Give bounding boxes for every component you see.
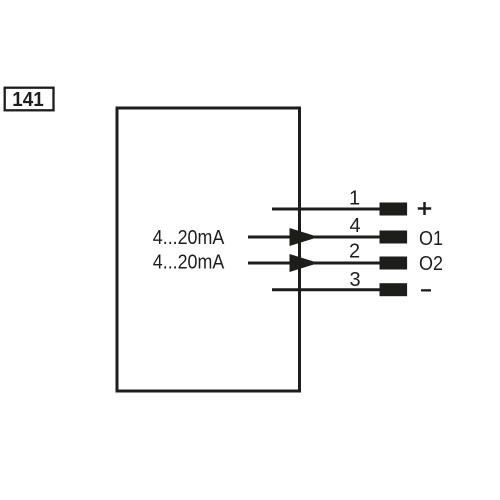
svg-text:O2: O2 — [419, 253, 443, 275]
terminal pin 1 — [380, 203, 408, 216]
label + — [418, 202, 431, 215]
svg-text:O1: O1 — [419, 228, 443, 250]
terminal pin 4 — [380, 231, 408, 244]
svg-text:2: 2 — [349, 241, 360, 263]
svg-text:4: 4 — [349, 215, 360, 237]
terminal pin 3 — [380, 283, 408, 296]
wire pin 1 — [272, 208, 381, 211]
svg-text:4...20mA: 4...20mA — [153, 227, 225, 249]
figure label box 141 — [5, 88, 54, 112]
arrow input 4...20mA O1 — [290, 228, 319, 246]
terminal pin 2 — [380, 257, 408, 270]
svg-text:1: 1 — [349, 187, 360, 209]
svg-text:141: 141 — [12, 89, 43, 111]
wire pin 2 — [248, 262, 381, 265]
label minus — [421, 289, 431, 291]
svg-text:4...20mA: 4...20mA — [153, 251, 225, 273]
wire pin 3 — [272, 288, 381, 291]
arrow input 4...20mA O2 — [290, 254, 319, 272]
device outline U1 — [117, 108, 300, 391]
svg-text:3: 3 — [349, 269, 360, 291]
wire pin 4 — [248, 236, 381, 239]
